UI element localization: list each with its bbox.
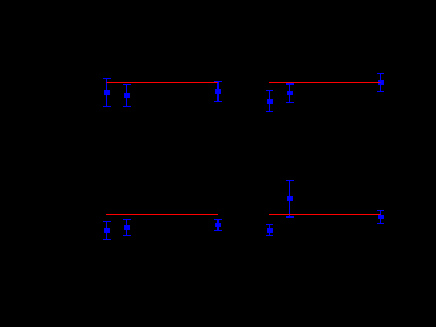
errorbar point 3 (bottom-left panel) [214, 219, 222, 231]
errorbar point 2 (top-left panel) [123, 84, 131, 107]
errorbar point 1 (bottom-left panel) [103, 221, 111, 240]
errorbar point 1 (bottom-right panel) [266, 224, 273, 236]
errorbar point 2 (top-right panel) [286, 83, 294, 103]
red constant-fit line (top-left panel) with antialiased end pixels [106, 82, 218, 83]
errorbar point 2 (bottom-right panel, large error bar) [286, 180, 294, 218]
errorbar point 3 (top-right panel) [377, 73, 384, 92]
red constant-fit line (bottom-left panel) [106, 214, 218, 215]
red constant-fit line (top-right panel) with antialiased end pixels [269, 82, 381, 83]
red constant-fit line (bottom-right panel) with antialiased end pixel [269, 214, 381, 215]
errorbar point 1 (top-left panel): vertical bar, caps, square marker [103, 78, 111, 107]
errorbar point 3 (top-left panel) [214, 81, 222, 102]
errorbar point 1 (top-right panel) [266, 90, 273, 112]
errorbar point 2 (bottom-left panel) [123, 219, 131, 236]
errorbar point 3 (bottom-right panel) [377, 210, 384, 224]
